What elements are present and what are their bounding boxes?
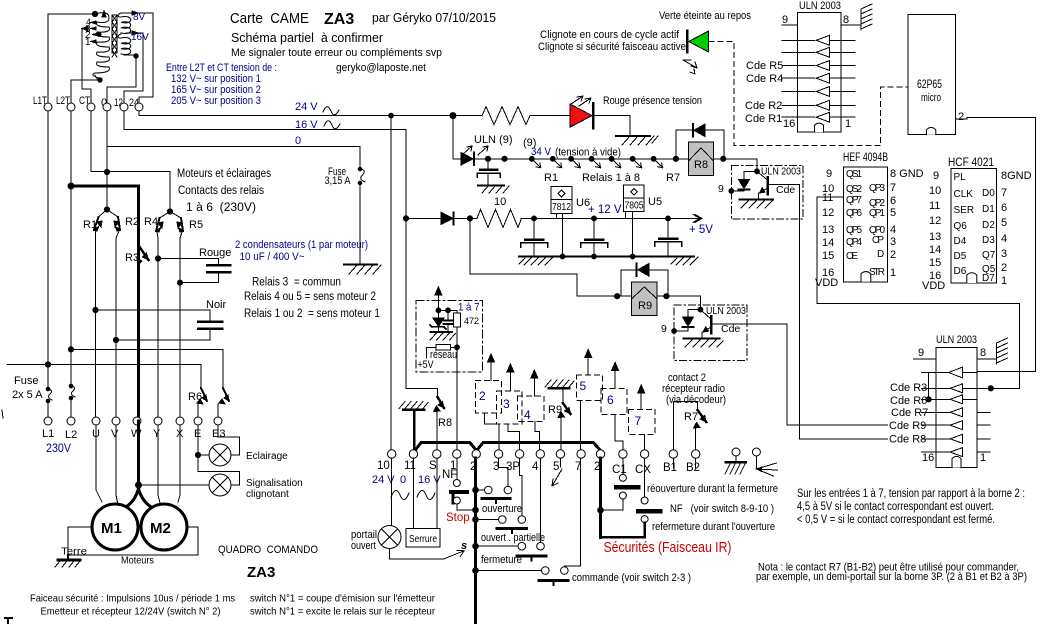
svg-text:E3: E3	[212, 428, 225, 440]
secondary top arrow	[132, 11, 138, 15]
svg-text:L2: L2	[65, 429, 77, 441]
transformer core	[112, 15, 117, 57]
tap2 dot	[97, 33, 101, 37]
HCF right pin numbers	[1001, 170, 1032, 287]
ground hatch right	[671, 257, 698, 265]
svg-text:6: 6	[890, 195, 896, 207]
wire rouge cap bottom	[180, 273, 219, 283]
svg-text:Cde R7: Cde R7	[891, 407, 928, 419]
svg-text:R2: R2	[125, 216, 139, 228]
node R1R2 common	[104, 207, 109, 212]
svg-text:6: 6	[607, 393, 614, 407]
serrure box	[406, 529, 440, 547]
wire partielle to 3P	[520, 458, 522, 516]
terminal circle L1T	[44, 103, 52, 111]
fuse L1	[46, 387, 52, 403]
svg-text:Serrure: Serrure	[409, 533, 437, 545]
svg-text:geryko@laposte.net: geryko@laposte.net	[336, 62, 426, 74]
arrow box 6	[612, 363, 619, 389]
svg-text:B1: B1	[663, 462, 677, 474]
ground R9 switch	[545, 380, 574, 388]
svg-text:clignotant: clignotant	[246, 489, 289, 500]
svg-text:0: 0	[400, 474, 406, 486]
LED green	[687, 31, 709, 52]
svg-text:Cde: Cde	[721, 323, 740, 335]
ground terre	[55, 555, 80, 567]
switch R9 contact	[558, 388, 571, 450]
switch R8 contact	[406, 389, 444, 450]
diode R9 bypass loop	[621, 270, 668, 296]
svg-text:10 uF / 400 V~: 10 uF / 400 V~	[240, 251, 305, 263]
svg-text:205 V~ sur position 3: 205 V~ sur position 3	[171, 95, 261, 107]
wire Cde R8 horizontal	[800, 438, 922, 440]
wire node to resistor472	[438, 309, 457, 311]
svg-text:2: 2	[958, 111, 964, 123]
arrow box 4	[531, 370, 538, 396]
optocell R9 dash-dot box	[674, 305, 747, 360]
wire E down then to signalisation lamp right	[198, 425, 240, 485]
node 24V bus to LED branch	[450, 113, 456, 119]
svg-text:1: 1	[85, 37, 91, 48]
arrow box 3	[507, 364, 514, 391]
wire L2T to R6 right	[71, 349, 223, 388]
dashed box 4	[518, 396, 545, 421]
svg-text:micro: micro	[921, 92, 941, 104]
terminal circle L2T	[67, 103, 75, 111]
wire 10 to portail lamp	[391, 458, 393, 526]
wire 1 to NF stop	[456, 458, 458, 479]
node U wire to noir cap	[93, 307, 98, 312]
wire L1T down	[47, 111, 49, 388]
wire 24V down to terminal 10	[390, 116, 392, 450]
svg-text:Clignote en cours de cycle act: Clignote en cours de cycle actif	[540, 29, 680, 41]
svg-text:D2: D2	[982, 220, 995, 231]
node rail cap3	[666, 216, 671, 221]
arrow up cell input	[435, 287, 442, 310]
svg-text:10: 10	[929, 185, 941, 197]
svg-text:16 V: 16 V	[418, 474, 441, 486]
svg-text:+ 12 V: + 12 V	[588, 204, 622, 216]
HCF left pin numbers	[922, 170, 945, 292]
terminal circle CT	[87, 103, 95, 111]
diode 10ohm rail	[441, 212, 454, 224]
arrows relais 1 a 8 on 34V bus	[529, 156, 662, 167]
wire micro pin2 to ULN3	[956, 118, 1036, 372]
svg-text:Emetteur et récepteur 12/24V (: Emetteur et récepteur 12/24V (switch N° …	[41, 606, 221, 618]
svg-text:Carte CAME: Carte CAME	[230, 10, 309, 27]
dashed box 3	[496, 391, 522, 424]
svg-text:B2: B2	[686, 462, 700, 474]
wire fuse L1 to terminal	[47, 402, 49, 417]
svg-text:12: 12	[822, 207, 834, 219]
node opto R9 input	[672, 329, 677, 334]
svg-text:CLK: CLK	[954, 189, 974, 200]
svg-text:Contacts des relais: Contacts des relais	[178, 185, 264, 197]
contact ouverture	[476, 486, 512, 503]
ground rail regulators	[519, 256, 694, 258]
capacitor rouge	[207, 265, 230, 272]
label Cde R9	[888, 419, 926, 432]
svg-text:ULN 2003: ULN 2003	[761, 166, 801, 178]
labels voltage bottom	[372, 474, 441, 486]
svg-text:switch N°1 = excite le relais: switch N°1 = excite le relais sur le réc…	[250, 606, 435, 618]
wire pin8 to chassis	[841, 24, 861, 26]
wire 24V bus	[139, 111, 453, 116]
svg-text:NF: NF	[442, 469, 457, 481]
node rail cap1	[532, 216, 537, 221]
relay R8 box	[688, 142, 713, 175]
wire lamp eclairage right to E3	[218, 425, 240, 455]
svg-text:SER: SER	[954, 205, 975, 216]
R4R5 roof	[160, 212, 182, 219]
text moteurs et eclairages	[177, 168, 271, 214]
svg-text:Sécurités (Faisceau IR): Sécurités (Faisceau IR)	[604, 540, 732, 556]
wire resistor to LED	[530, 115, 570, 117]
svg-text:1: 1	[1001, 275, 1007, 287]
wire row1 to cde r6	[928, 373, 930, 400]
svg-text:Faiceau sécurité : Impulsions: Faiceau sécurité : Impulsions 10us / pér…	[30, 593, 235, 605]
svg-text:Cde R1: Cde R1	[745, 113, 782, 125]
arrow box 7	[638, 385, 645, 409]
svg-text:QS2: QS2	[846, 184, 862, 195]
svg-text:QP6: QP6	[846, 208, 862, 219]
svg-text:Relais 1 à 8: Relais 1 à 8	[582, 172, 640, 184]
contact CX	[638, 497, 660, 523]
terminal labels bottom strip	[377, 460, 700, 476]
capacitor C in	[521, 218, 548, 256]
node gnd u6	[560, 254, 565, 259]
contact commande	[476, 567, 569, 585]
wire diode to R8 bus 34V	[474, 158, 688, 160]
wire Y down to M2	[158, 425, 160, 503]
R1R2 roof	[99, 210, 119, 218]
svg-text:par exemple, un demi-portail s: par exemple, un demi-portail sur la born…	[756, 571, 1027, 583]
wire tap3 to CT	[82, 29, 91, 104]
TITLE BLOCK	[166, 10, 496, 107]
HCF box	[951, 169, 997, 284]
svg-text:(9): (9)	[523, 137, 536, 149]
wire R9 to opto collector	[657, 296, 700, 309]
svg-text:VDD: VDD	[922, 280, 945, 292]
wire R5 to X	[180, 232, 182, 417]
secondary bottom wire to 0	[107, 55, 136, 103]
label contact recepteur radio	[662, 372, 726, 406]
capacitor 34V filter	[477, 159, 500, 185]
svg-text:D0: D0	[982, 188, 995, 199]
svg-text:2 condensateurs (1 par moteur): 2 condensateurs (1 par moteur)	[235, 239, 368, 251]
thick rail 2 down	[474, 458, 477, 624]
HEF left pin numbers	[815, 168, 838, 289]
capacitor noir	[198, 322, 222, 329]
thick wire 2b down	[599, 458, 602, 537]
svg-text:13: 13	[822, 224, 834, 236]
svg-text:3: 3	[503, 397, 510, 411]
svg-text:14: 14	[929, 244, 941, 256]
node L2T thick branch	[68, 183, 74, 189]
tap3 arrow	[82, 27, 88, 31]
svg-text:Me signaler toute erreur ou co: Me signaler toute erreur ou compléments …	[231, 47, 442, 59]
terminal circle 0	[103, 103, 111, 111]
svg-text:refermeture durant l'ouverture: refermeture durant l'ouverture	[652, 521, 775, 533]
LED red light arrows	[571, 96, 591, 106]
ULN1 box	[797, 13, 841, 132]
svg-text:2x 5 A: 2x 5 A	[12, 389, 43, 401]
svg-text:+ 5V: + 5V	[689, 224, 713, 236]
wire pin9 stub	[782, 24, 797, 26]
svg-text:Verte éteinte au repos: Verte éteinte au repos	[659, 10, 751, 22]
svg-text:Relais 1 ou 2 = sens moteur 1: Relais 1 ou 2 = sens moteur 1	[244, 308, 380, 320]
wire W to lamp signalisation	[139, 484, 210, 486]
wire stub below B1	[672, 458, 674, 468]
terminal circle 24	[135, 103, 143, 111]
diode 34V feed	[461, 153, 474, 166]
wire stub left of L1T	[7, 364, 48, 366]
svg-text:2: 2	[1001, 262, 1007, 274]
contact NF stop	[451, 480, 467, 505]
svg-text:ouvert . partielle: ouvert . partielle	[481, 532, 545, 544]
wire to noir cap top	[96, 310, 211, 320]
svg-text:ULN 2003: ULN 2003	[936, 334, 977, 346]
wire R1 to U	[95, 231, 97, 417]
wire primary coil tail	[95, 75, 100, 80]
svg-text:8GND: 8GND	[1001, 170, 1032, 182]
svg-text:11: 11	[929, 200, 940, 212]
svg-text:Cde R8: Cde R8	[889, 434, 926, 446]
wire CX to rail 2b	[601, 523, 645, 538]
wire Cde R9 down	[786, 324, 788, 425]
svg-text:Moteurs et éclairages: Moteurs et éclairages	[177, 168, 271, 180]
svg-text:5: 5	[890, 207, 896, 219]
svg-text:Signalisation: Signalisation	[246, 478, 303, 489]
ground LED	[616, 136, 658, 145]
svg-text:Rouge présence tension: Rouge présence tension	[603, 95, 702, 107]
svg-text:Rouge: Rouge	[199, 247, 231, 259]
svg-text:NF (voir switch 8-9-10 ): NF (voir switch 8-9-10 )	[670, 503, 774, 515]
ground 34V cap	[478, 185, 509, 193]
svg-text:QP1: QP1	[869, 208, 885, 219]
node R4R5 common	[167, 209, 172, 214]
svg-text:CX: CX	[635, 464, 651, 476]
svg-text:Schéma partiel à confirmer: Schéma partiel à confirmer	[231, 30, 384, 45]
svg-text:R4: R4	[144, 216, 158, 228]
svg-text:R8: R8	[694, 159, 708, 171]
arrows ULN9	[462, 146, 488, 155]
wire S to serrure	[436, 458, 438, 529]
svg-text:fermeture: fermeture	[481, 554, 522, 566]
diode R8 bypass loop	[676, 130, 724, 159]
svg-text:16 V: 16 V	[295, 119, 318, 131]
svg-text:s: s	[461, 540, 467, 552]
primary top arrow	[102, 11, 106, 17]
svg-text:par Géryko 07/10/2015: par Géryko 07/10/2015	[372, 10, 496, 25]
wire fermeture to 4	[540, 458, 542, 542]
ground opto R9	[684, 339, 723, 347]
svg-text:D7: D7	[982, 273, 995, 284]
regulator U6 7812	[551, 187, 572, 257]
wire to rouge cap top	[158, 259, 219, 265]
svg-text:9: 9	[782, 14, 788, 26]
wire pin9 stub uln3	[914, 358, 937, 360]
wire diode to resistor10	[454, 217, 478, 219]
svg-text:472: 472	[464, 316, 479, 326]
node R5 wire rouge cap	[177, 280, 182, 285]
node 34V second	[502, 156, 507, 161]
wire fuse L2 to terminal	[70, 399, 72, 417]
ULN1 notch	[815, 123, 824, 132]
svg-text:QUADRO COMANDO: QUADRO COMANDO	[218, 544, 318, 556]
stray mark left edge	[2, 410, 3, 418]
svg-text:2: 2	[479, 389, 486, 403]
svg-text:M2: M2	[150, 520, 171, 537]
sine symbol 24V	[323, 107, 339, 115]
svg-text:9: 9	[918, 347, 924, 359]
node bus R8 left	[673, 156, 678, 161]
svg-text:5: 5	[553, 461, 559, 473]
wire R2 to V	[116, 231, 119, 417]
svg-text:Cde R2: Cde R2	[745, 100, 782, 112]
labels L1 L2 U V W Y X E E3	[42, 428, 225, 441]
svg-text:7812: 7812	[552, 201, 571, 213]
node L2T R6 branch	[68, 347, 73, 352]
node rail cap2	[592, 216, 597, 221]
ground symbol with terminal	[725, 448, 746, 474]
svg-text:7: 7	[890, 182, 896, 194]
svg-text:Cde R9: Cde R9	[889, 420, 926, 432]
dashed box 7	[629, 409, 656, 434]
ground opto R8	[740, 200, 774, 209]
wire R9 left lead	[617, 295, 631, 297]
svg-text:62P65: 62P65	[917, 79, 942, 91]
wire R6a to E	[197, 404, 199, 417]
secondary mid arrow	[132, 31, 138, 35]
node opto R8 input	[729, 189, 734, 194]
ground cell	[430, 332, 456, 340]
node R9 right	[664, 294, 669, 299]
regulator U5 7805	[624, 185, 644, 257]
arrow box 2	[488, 354, 495, 380]
node rail2 commande	[473, 568, 479, 574]
node gnd u5	[630, 254, 635, 259]
svg-text:9: 9	[826, 168, 832, 180]
node CT/0 junction	[104, 169, 109, 174]
dashed wire green LED to micro	[709, 41, 908, 145]
relay contact R6a	[197, 388, 207, 404]
node opto R9 collector	[698, 307, 703, 312]
svg-text:10: 10	[494, 196, 506, 208]
svg-text:Eclairage: Eclairage	[246, 451, 288, 462]
terminal circles bottom strip	[388, 450, 700, 458]
svg-text:16V: 16V	[131, 32, 149, 43]
svg-text:24 V: 24 V	[295, 101, 318, 113]
svg-text:Clignote si sécurité faisceau: Clignote si sécurité faisceau active	[538, 41, 686, 53]
capacitor cell	[444, 310, 454, 331]
thick wire W down to motors fork	[127, 421, 151, 507]
svg-text:8V: 8V	[133, 12, 146, 23]
arrow to s	[444, 550, 464, 559]
svg-text:Stop: Stop	[446, 512, 470, 524]
nota text	[756, 562, 1027, 584]
transistor opto R8	[757, 171, 800, 199]
svg-text:U5: U5	[648, 196, 662, 208]
wire E to lamp eclairage left	[198, 454, 209, 456]
node reseau right	[455, 345, 460, 350]
ULN1 buffers and pin lines	[782, 35, 855, 122]
svg-text:4: 4	[524, 408, 531, 422]
node after diode	[467, 216, 472, 221]
svg-text:Q6: Q6	[954, 221, 968, 232]
svg-text:4: 4	[890, 224, 896, 236]
node cell input	[436, 308, 441, 313]
dashed box 5	[576, 375, 602, 400]
transformer secondary 16V winding	[118, 34, 131, 54]
relay contact R3	[137, 246, 149, 265]
svg-text:V: V	[111, 428, 119, 440]
secondary bottom arrow dot	[134, 54, 138, 58]
svg-text:9: 9	[661, 323, 667, 335]
svg-text:4,5 à 5V si le contact corresp: 4,5 à 5V si le contact correspondant est…	[797, 501, 994, 513]
wire stub below B2	[695, 458, 697, 468]
wire box2 to terminal 3	[485, 413, 500, 450]
thick bus 11 to 2	[415, 443, 477, 451]
sine symbol 16V	[324, 121, 340, 129]
switch R7	[694, 410, 707, 450]
svg-text:1: 1	[890, 267, 896, 279]
node rail2 partielle	[473, 517, 479, 523]
wire 16V bus	[124, 111, 406, 130]
node R4 wire to rouge cap	[155, 256, 160, 261]
node opto R8 collector	[755, 169, 760, 174]
label fuse 2x5A	[12, 375, 43, 401]
wire lamp to s arrow	[390, 549, 445, 559]
svg-text:15: 15	[822, 250, 834, 262]
wire pin8 to chassis uln3	[977, 358, 997, 360]
node 16V rail to 10ohm	[403, 216, 408, 221]
svg-text:0: 0	[295, 135, 301, 147]
svg-text:QP4: QP4	[846, 237, 862, 248]
svg-text:8: 8	[980, 347, 986, 359]
svg-text:+5V: +5V	[418, 359, 435, 371]
wire 0 bus	[107, 111, 360, 147]
wire U down to M1	[96, 425, 102, 502]
svg-text:D6: D6	[954, 266, 967, 277]
contact C1	[616, 474, 638, 499]
svg-text:15: 15	[929, 257, 941, 269]
node W lamp branch	[136, 482, 142, 488]
svg-text:HEF 4094B: HEF 4094B	[843, 152, 888, 164]
dashed box 2	[476, 380, 502, 413]
svg-text:D1: D1	[982, 204, 995, 215]
svg-text:STR: STR	[869, 267, 885, 278]
svg-text:1 à 7: 1 à 7	[458, 302, 480, 314]
svg-text:M1: M1	[101, 520, 122, 537]
svg-text:7805: 7805	[625, 200, 644, 212]
svg-text:2: 2	[890, 249, 896, 261]
svg-text:ULN 2003: ULN 2003	[799, 0, 841, 12]
svg-text:16: 16	[783, 118, 795, 130]
node rail2 nf	[473, 507, 479, 513]
secondary top wire to 24	[122, 13, 153, 103]
thick bus 2 to 2b	[477, 443, 601, 451]
wire R8 to opto collector	[714, 159, 757, 172]
svg-text:8: 8	[843, 14, 849, 26]
node bus R8 right	[721, 156, 726, 161]
label portail ouvert	[351, 529, 377, 552]
resistor 24V bus	[482, 107, 530, 125]
svg-text:QP7: QP7	[846, 195, 862, 206]
node V wire noir cap	[113, 337, 118, 342]
svg-text:ZA3: ZA3	[247, 564, 275, 581]
svg-text:3: 3	[1001, 248, 1007, 260]
